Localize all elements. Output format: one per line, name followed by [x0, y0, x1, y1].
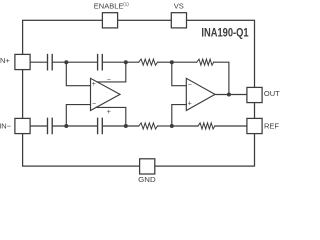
wire IN+ to C1 [30, 61, 47, 63]
svg-text:+: + [107, 109, 111, 116]
pin box IN- [15, 118, 30, 133]
wire amp2 output to OUT [215, 94, 247, 96]
pin box VS [171, 13, 186, 28]
pin box IN+ [15, 54, 30, 69]
amp1 bottom output tap to node E [96, 107, 126, 126]
svg-text:IN+: IN+ [0, 56, 10, 65]
svg-text:OUT: OUT [264, 89, 280, 98]
capacitor C1 right plate [51, 55, 53, 70]
svg-text:−: − [188, 82, 192, 89]
svg-text:INA190-Q1: INA190-Q1 [201, 25, 249, 39]
capacitor C4 right plate [101, 118, 103, 133]
capacitor C1 left plate [47, 55, 49, 70]
capacitor C3 right plate [51, 118, 53, 133]
svg-text:REF: REF [264, 122, 279, 131]
wire C2 to R1 [103, 61, 139, 63]
node G output junction dot [227, 93, 231, 97]
op-amp U1 triangle [91, 78, 121, 110]
wire R1 to node C [158, 61, 172, 63]
wire R3 to node F [158, 125, 172, 127]
svg-text:−: − [107, 76, 111, 83]
wire C1 to C2 (node A run) [53, 61, 97, 63]
capacitor C2 left plate [97, 55, 99, 70]
node B junction dot [124, 60, 128, 64]
pin box REF [247, 118, 262, 133]
node A junction dot [64, 60, 68, 64]
capacitor C4 left plate [97, 118, 99, 133]
svg-text:(1): (1) [123, 1, 129, 6]
wire node F up to amp2 + input [172, 105, 187, 126]
pin box OUT [247, 87, 262, 102]
wire node C to R2 [172, 61, 197, 63]
wire node A down to amp1 + input [66, 62, 90, 85]
capacitor C3 left plate [47, 118, 49, 133]
svg-text:GND: GND [138, 175, 156, 184]
amp1 top output tap to node B [97, 62, 126, 82]
outer IC boundary box [23, 20, 255, 166]
pin box GND [140, 159, 155, 174]
resistor R2 (feedback top) [197, 59, 214, 65]
svg-text:+: + [188, 101, 192, 108]
wire IN- to C3 [30, 125, 47, 127]
wire R2 to corner and down to output node [214, 62, 229, 94]
svg-text:ENABLE: ENABLE [94, 1, 124, 10]
svg-text:VS: VS [174, 1, 184, 10]
node E junction dot [124, 124, 128, 128]
resistor R1 [139, 59, 158, 65]
wire node C down to amp2 - input [172, 62, 187, 85]
svg-text:IN−: IN− [0, 122, 12, 131]
wire R4 to REF box [215, 125, 247, 127]
resistor R4 (to REF) [198, 123, 215, 129]
svg-text:−: − [92, 101, 96, 108]
wire C3 to C4 (node D run) [53, 125, 97, 127]
wire node F to R4 [172, 125, 198, 127]
svg-text:+: + [92, 81, 96, 88]
node C junction dot [170, 60, 174, 64]
node F junction dot [170, 124, 174, 128]
capacitor C2 right plate [101, 55, 103, 70]
op-amp U2 triangle [186, 78, 215, 110]
wire node D up to amp1 - input [66, 105, 90, 126]
wire C4 to R3 [103, 125, 139, 127]
node D junction dot [64, 124, 68, 128]
pin box ENABLE [102, 13, 117, 28]
resistor R3 [139, 123, 158, 129]
